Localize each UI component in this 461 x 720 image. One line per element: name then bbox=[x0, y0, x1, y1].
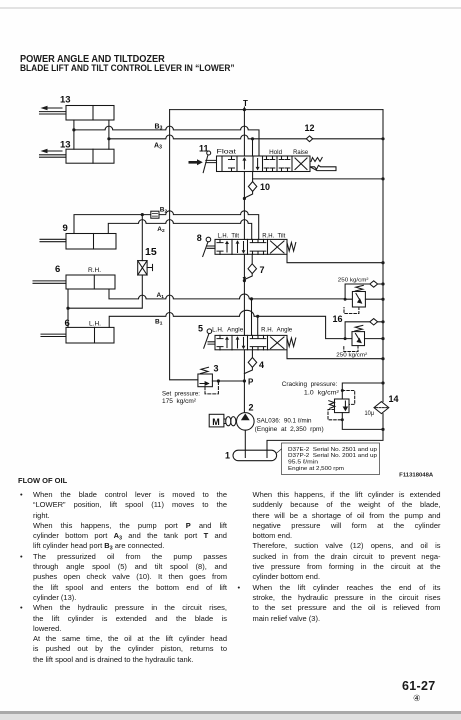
port relief valve 16 (lower) bbox=[352, 332, 365, 346]
svg-text:F11318048A: F11318048A bbox=[399, 472, 434, 478]
label 9 bbox=[63, 223, 68, 234]
svg-text:L.H.: L.H. bbox=[89, 321, 101, 328]
left column text bbox=[33, 490, 227, 665]
svg-text:1.0 kg/cm²: 1.0 kg/cm² bbox=[304, 389, 339, 396]
bypass valve spring bbox=[329, 401, 335, 409]
lift cylinder 13 (lower) bbox=[40, 149, 115, 163]
svg-text:L.H. Tilt: L.H. Tilt bbox=[218, 233, 240, 239]
valve 8 section1 internals bbox=[217, 239, 229, 254]
right bullet bbox=[238, 583, 241, 592]
valve 11 lever link bbox=[206, 160, 217, 162]
svg-text:175 kg/cm²: 175 kg/cm² bbox=[162, 398, 196, 405]
junction below check 7 bbox=[243, 279, 246, 282]
figure number bbox=[399, 472, 434, 478]
svg-text:15: 15 bbox=[145, 246, 157, 258]
pump 2 bbox=[237, 413, 255, 431]
svg-text:10μ: 10μ bbox=[365, 410, 375, 417]
arrow (rod extend, upper 13) bbox=[41, 106, 63, 110]
svg-text:5: 5 bbox=[198, 324, 203, 334]
wire: relief 3 outlet to P line bbox=[212, 380, 244, 382]
valve 11 raise section crossed arrows bbox=[295, 158, 307, 170]
valve 5 lever bbox=[204, 329, 215, 348]
wire: bypass valve outlet to right riser bbox=[341, 413, 385, 431]
wire: valve 11 drain link to right riser y=178.9 bbox=[253, 177, 385, 180]
label 11 bbox=[199, 144, 209, 154]
wire: right tank riser x=383 down to tank bbox=[267, 110, 383, 458]
wire: left tank return riser x=169.6 down to main relief valve 3 bbox=[170, 110, 198, 380]
valve 11 lever knob bbox=[203, 151, 211, 173]
junction A3 branch bbox=[107, 137, 110, 140]
wire: B1 stem into valve 5 bbox=[257, 316, 259, 335]
svg-text:R.H. Angle: R.H. Angle bbox=[261, 328, 293, 334]
junction below check 10 bbox=[243, 197, 246, 200]
label 12 bbox=[305, 123, 315, 133]
valve 11 detent paddle bbox=[310, 165, 336, 170]
valve 11 actuation arrow (bold) bbox=[189, 159, 203, 165]
valve 5 crossed section bbox=[271, 337, 285, 349]
svg-text:6: 6 bbox=[65, 318, 70, 329]
wire: A1 stem into valve 5 bbox=[251, 299, 253, 336]
valve 11 pass section arrows bbox=[242, 157, 259, 171]
angle cylinder 6 R.H. bbox=[33, 275, 115, 289]
node P bbox=[243, 378, 254, 387]
svg-text:10: 10 bbox=[260, 182, 270, 192]
svg-text:Raise: Raise bbox=[293, 150, 309, 156]
label 2 bbox=[249, 403, 254, 413]
relief 16 upper spring bbox=[355, 285, 363, 291]
lift spool valve U11 body bbox=[217, 156, 311, 172]
valve 8 lever bbox=[203, 237, 215, 256]
label Raise bbox=[293, 150, 309, 156]
title bbox=[20, 55, 165, 65]
svg-text:R.H. Tilt: R.H. Tilt bbox=[262, 233, 285, 239]
label 250 kg/cm2 (lower) bbox=[336, 352, 367, 358]
svg-text:(Engine at 2,350 rpm): (Engine at 2,350 rpm) bbox=[255, 426, 324, 433]
node B2 label bbox=[160, 207, 168, 215]
valve 11 float section internals bbox=[222, 156, 235, 172]
svg-text:95.5 ℓ/min: 95.5 ℓ/min bbox=[288, 459, 318, 466]
wire: center riser valve 5 to pump bbox=[243, 350, 245, 413]
wire: relief 16 lower outlet to right riser bbox=[365, 337, 385, 340]
filter 14 bbox=[374, 402, 389, 414]
svg-text:9: 9 bbox=[63, 223, 68, 234]
junction B2/slow-return branch bbox=[141, 213, 144, 216]
wire: return line inside tank bbox=[266, 450, 268, 457]
svg-text:M: M bbox=[212, 417, 220, 427]
svg-text:13: 13 bbox=[60, 95, 71, 106]
label 6 (R.H.) bbox=[55, 264, 60, 275]
relief 16 lower spring bbox=[355, 325, 363, 331]
label Set pressure bbox=[162, 390, 200, 405]
faint top page line bbox=[0, 7, 461, 9]
wire: valve 5 drain to right riser y=358.7 bbox=[287, 350, 385, 361]
junction at T on tank header bbox=[243, 108, 246, 111]
wire: cracking valve feed from right riser bbox=[341, 381, 385, 399]
wire: head-side link between angle cylinders x=68 bbox=[67, 289, 69, 327]
info box text bbox=[288, 447, 378, 472]
wire: relief 16 upper outlet to right riser bbox=[365, 298, 384, 301]
lift cylinder 13 (upper) bbox=[40, 106, 115, 121]
node A3 label bbox=[154, 143, 162, 151]
svg-text:A2: A2 bbox=[157, 226, 165, 234]
svg-text:P: P bbox=[248, 378, 254, 387]
label 10u bbox=[365, 410, 375, 417]
valve 5 spring bbox=[287, 338, 296, 347]
info box bbox=[277, 443, 380, 475]
angle valve U5 body bbox=[215, 335, 287, 349]
label 7 bbox=[260, 265, 265, 275]
wire: jog from check 7 to center riser with flow arrow bbox=[243, 274, 253, 281]
label 5 bbox=[198, 324, 203, 334]
svg-text:6: 6 bbox=[55, 264, 60, 275]
check valve 10 bbox=[248, 182, 256, 192]
wire: jog from check 10 to center riser bbox=[244, 191, 252, 198]
motor M bbox=[209, 414, 224, 427]
wire: center riser valve 8 to valve 5 bbox=[243, 254, 245, 335]
wire: pump line inside tank bbox=[244, 450, 246, 457]
label 8 bbox=[197, 233, 202, 243]
label R.H. Tilt bbox=[262, 233, 285, 239]
svg-text:B3: B3 bbox=[155, 124, 163, 132]
label SAL036 bbox=[255, 417, 324, 433]
junction A1 stem bbox=[250, 297, 253, 300]
pilot line valve 3 (dashed) bbox=[205, 382, 218, 394]
label Float bbox=[217, 150, 237, 156]
wire: stem valve 8 to check valve 7 bbox=[251, 254, 253, 263]
svg-text:4: 4 bbox=[259, 360, 264, 370]
junction A3 line on right riser bbox=[381, 137, 384, 140]
wire: head-side link between 13 cylinders x=73.9 bbox=[73, 120, 75, 149]
coupling bbox=[224, 417, 236, 426]
label 6 (L.H.) bbox=[65, 318, 70, 329]
wire: line A2 cyl 9 rod side to valve 8 bbox=[108, 220, 251, 240]
suction valve 12 bbox=[306, 136, 312, 142]
page number bbox=[402, 679, 435, 693]
right column text bbox=[253, 490, 441, 624]
label 1 bbox=[225, 451, 230, 461]
valve 3 spring bbox=[201, 367, 209, 373]
wire: jog from check 4 to center riser bbox=[244, 367, 252, 373]
label 13 (upper) bbox=[60, 95, 71, 106]
label 10 bbox=[260, 182, 270, 192]
wire: center riser valve 11 to valve 8 bbox=[243, 172, 245, 240]
label 15 bbox=[145, 246, 157, 258]
svg-text:SAL036: 90.1 ℓ/min: SAL036: 90.1 ℓ/min bbox=[257, 417, 312, 424]
label Cracking pressure bbox=[282, 381, 339, 396]
wire: line A3 from cylinders past valve 11 to suction valve 12 and right riser bbox=[109, 135, 383, 139]
junction B3 branch bbox=[72, 128, 75, 131]
svg-text:2: 2 bbox=[249, 403, 254, 413]
label 250 kg/cm2 (upper) bbox=[338, 278, 369, 284]
label 14 bbox=[389, 394, 399, 404]
wire: A3 stem into valve 11 bbox=[251, 137, 254, 156]
bypass valve pilot dashed bbox=[328, 391, 355, 420]
quick drop valve 15 bbox=[138, 261, 153, 275]
wire: stem valve 11 to check valve 10 bbox=[252, 172, 254, 182]
svg-text:3: 3 bbox=[214, 364, 219, 374]
svg-text:1: 1 bbox=[225, 451, 230, 461]
label Hold bbox=[269, 150, 282, 156]
wire: center riser T down to valve 11 bbox=[243, 107, 245, 156]
label L.H. Tilt bbox=[218, 233, 240, 239]
wire: stem valve 5 to check valve 4 bbox=[251, 350, 253, 358]
junction pilot on P line bbox=[217, 379, 220, 382]
wire: line B3 from cylinders to valve 11 bbox=[74, 126, 259, 156]
FLOW OF OIL heading bbox=[18, 477, 67, 485]
svg-text:Float: Float bbox=[217, 150, 237, 156]
svg-text:B1: B1 bbox=[155, 319, 163, 327]
svg-text:L.H. Angle: L.H. Angle bbox=[212, 328, 244, 334]
port relief valve 16 (upper) bbox=[352, 292, 365, 308]
check valve 4 bbox=[248, 358, 257, 368]
label 13 (lower) bbox=[60, 140, 71, 151]
valve 5 section2 arrows bbox=[236, 336, 246, 349]
wire: line B1 from cyl 6 L.H. to valve 5 and lower relief bbox=[109, 310, 352, 338]
wire: line B2 cyl 9 head side to valve 8 bbox=[74, 211, 259, 240]
svg-text:7: 7 bbox=[260, 265, 265, 275]
left bullets bbox=[20, 490, 23, 499]
bottom gray strip bbox=[0, 711, 461, 714]
node A2 label bbox=[157, 226, 165, 234]
valve 11 hold section blocked ports bbox=[264, 156, 275, 172]
wire: valve 8 drain to right riser y=262.7 bbox=[287, 254, 385, 264]
bypass valve (cracking) bbox=[335, 399, 350, 413]
wire: pump to tank bbox=[244, 430, 246, 457]
anti-void check (lower) bbox=[344, 319, 385, 341]
svg-text:R.H.: R.H. bbox=[88, 267, 101, 274]
valve 8 section2 arrows bbox=[236, 240, 246, 254]
wire: line A1 from cyl 6 R.H. to valve 5 and relief bbox=[109, 289, 352, 299]
node B1 label bbox=[155, 319, 163, 327]
svg-text:Cracking pressure:: Cracking pressure: bbox=[282, 381, 338, 388]
svg-text:16: 16 bbox=[333, 314, 343, 324]
valve 11 fourth section blocked ports bbox=[279, 156, 290, 172]
label L.H. bbox=[89, 321, 101, 328]
junction B1 stem bbox=[256, 315, 259, 318]
main relief valve 3 bbox=[198, 374, 213, 387]
svg-text:13: 13 bbox=[60, 140, 71, 151]
label R.H. Angle bbox=[261, 328, 293, 334]
angle cylinder 6 L.H. bbox=[41, 327, 114, 343]
svg-text:A3: A3 bbox=[154, 143, 162, 151]
label 4 bbox=[259, 360, 264, 370]
tank 1 bbox=[233, 450, 277, 461]
valve 5 center blocked ports bbox=[250, 335, 266, 349]
arrow (rod extend, lower 13) bbox=[41, 149, 63, 153]
svg-text:D37E-2 Serial No. 2501 and up: D37E-2 Serial No. 2501 and up bbox=[288, 447, 378, 453]
valve 8 crossed section bbox=[271, 241, 285, 253]
label L.H. Angle bbox=[212, 328, 244, 334]
svg-text:Hold: Hold bbox=[269, 150, 282, 156]
label 3 bbox=[214, 364, 219, 374]
svg-text:T: T bbox=[243, 99, 248, 108]
svg-text:Set pressure:: Set pressure: bbox=[162, 390, 200, 397]
valve 8 spring bbox=[287, 243, 296, 252]
svg-text:D37P-2 Serial No. 2001 and up: D37P-2 Serial No. 2001 and up bbox=[288, 453, 378, 459]
svg-text:Engine at 2,500 rpm: Engine at 2,500 rpm bbox=[288, 466, 344, 472]
node A1 label bbox=[157, 292, 165, 300]
svg-text:14: 14 bbox=[389, 394, 399, 404]
svg-text:250 kg/cm²: 250 kg/cm² bbox=[336, 352, 367, 358]
valve 11 spring bbox=[311, 158, 322, 162]
valve 8 center blocked ports bbox=[250, 239, 266, 254]
wire: riser through valve 15 from B2 line down to angle link bbox=[68, 215, 142, 309]
anti-void check (upper) bbox=[344, 281, 385, 301]
node B3 label bbox=[155, 124, 163, 132]
tilt valve U8 body bbox=[215, 239, 287, 254]
node T label bbox=[243, 99, 248, 108]
relief 16 upper pilot dashed bbox=[344, 307, 359, 314]
svg-text:250 kg/cm²: 250 kg/cm² bbox=[338, 278, 369, 284]
check valve 7 bbox=[248, 264, 257, 274]
valve 5 section1 internals bbox=[217, 335, 229, 349]
svg-text:B2: B2 bbox=[160, 207, 168, 215]
junction quick-drop branch bbox=[66, 307, 69, 310]
relief 16 lower pilot dashed bbox=[344, 346, 358, 352]
wire: rod-side link between 13 cylinders x=108.9 bbox=[108, 120, 110, 149]
wire: top tank header from left riser to right riser bbox=[170, 109, 383, 111]
label R.H. bbox=[88, 267, 101, 274]
tilt cylinder 9 bbox=[40, 234, 116, 250]
svg-text:12: 12 bbox=[305, 123, 315, 133]
label 16 bbox=[333, 314, 343, 324]
slow return check B2 bbox=[151, 211, 159, 218]
svg-text:A1: A1 bbox=[157, 292, 165, 300]
svg-text:8: 8 bbox=[197, 233, 202, 243]
